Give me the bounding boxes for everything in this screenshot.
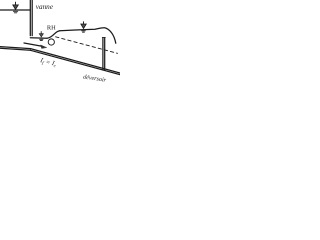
svg-text:RH: RH <box>47 25 56 32</box>
wire jet surface downstream of gate <box>30 37 47 39</box>
node jet free-surface symbol <box>39 32 43 41</box>
node upstream free-surface symbol <box>13 2 18 13</box>
svg-text:If ≈ Ic: If ≈ Ic <box>38 57 58 70</box>
wire dashed critical-depth line <box>56 37 118 54</box>
node downstream free-surface symbol <box>81 22 86 32</box>
component weir wall (deversoir) double line <box>102 38 105 71</box>
label deversoir <box>83 74 107 83</box>
svg-text:vanne: vanne <box>36 3 54 11</box>
component flow direction arrow under gate <box>24 43 47 48</box>
wire downstream water surface and nappe over weir <box>60 28 116 44</box>
label If = Ic <box>38 57 58 70</box>
component jump roller circle <box>48 39 54 45</box>
wire hydraulic-jump face curve <box>47 31 60 39</box>
wire sloping channel bed (double line) <box>31 49 121 75</box>
component gate (vanne) double line <box>30 0 32 36</box>
svg-text:déversoir: déversoir <box>83 74 107 83</box>
wire upstream apron bed (double line) <box>0 47 31 51</box>
wire upstream water surface line <box>0 9 30 11</box>
